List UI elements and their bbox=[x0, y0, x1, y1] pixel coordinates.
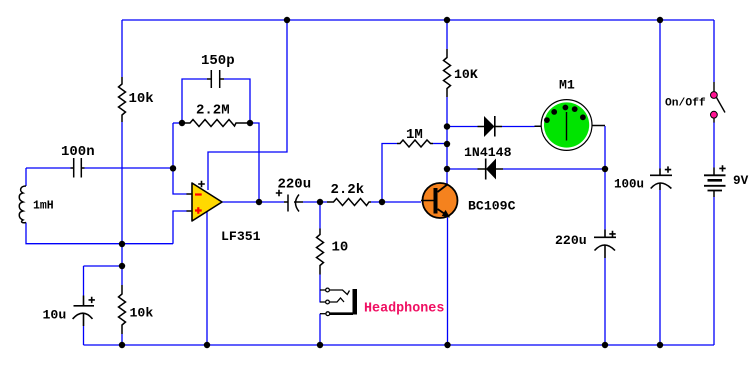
wire 150p loop left bbox=[182, 79, 207, 123]
wire meter right drop bbox=[604, 126, 606, 230]
wire 10u branch lower bbox=[83, 326, 85, 345]
wire diode D1 to meter bbox=[502, 126, 535, 128]
svg-text:220u: 220u bbox=[278, 177, 312, 193]
wire collector rail (10K to transistor) bbox=[446, 97, 448, 184]
wire 2.2k to base node bbox=[371, 201, 382, 203]
junction top rail / 100u branch bbox=[657, 17, 663, 23]
svg-text:1M: 1M bbox=[406, 127, 423, 143]
diode D2 1N4148 (return) bbox=[478, 159, 504, 180]
junction ground rail x122 bbox=[119, 342, 125, 348]
wire right vertical battery to ground rail bbox=[713, 197, 715, 345]
wire feedback from output bbox=[250, 123, 259, 202]
resistor R1 10k (top left) bbox=[119, 77, 126, 122]
junction ground rail x320 bbox=[317, 342, 323, 348]
capacitor C2 150p plates bbox=[207, 70, 224, 88]
wire 100u branch upper bbox=[659, 20, 661, 169]
battery B1 9V bbox=[704, 168, 726, 198]
transistor Q1 BC109C bbox=[421, 183, 458, 218]
headphone jack J1 bbox=[320, 288, 357, 316]
svg-text:1mH: 1mH bbox=[33, 200, 54, 213]
svg-text:2.2M: 2.2M bbox=[196, 103, 230, 119]
junction tank bottom node bbox=[119, 241, 125, 247]
wire 10u branch upper bbox=[83, 266, 85, 296]
wire 10u branch horizontal bbox=[84, 265, 123, 267]
svg-text:150p: 150p bbox=[201, 53, 235, 69]
svg-text:220u: 220u bbox=[555, 233, 587, 248]
plus mark C5 220u bbox=[609, 231, 615, 237]
junction 2.2M left node bbox=[179, 120, 185, 126]
switch S1 On/Off bbox=[711, 82, 726, 123]
wire headphone jack sleeve to ground rail bbox=[319, 314, 321, 345]
meter M1 bbox=[535, 100, 606, 151]
wire bottom ground rail bbox=[84, 344, 715, 346]
junction inverting input node bbox=[170, 165, 176, 171]
resistor R6 1M bbox=[397, 140, 433, 147]
wire left vertical (10k bottom to ground rail) bbox=[121, 334, 123, 345]
wire base node to transistor bbox=[382, 201, 421, 203]
resistor R2 10k (bottom left) bbox=[119, 285, 126, 334]
wire top supply rail bbox=[122, 19, 714, 21]
resistor R7 10K collector bbox=[444, 49, 451, 97]
junction 2.2k left node bbox=[317, 199, 323, 205]
wire op-amp V+ to top rail bbox=[208, 20, 287, 190]
wire 100u branch lower bbox=[659, 190, 661, 345]
wire op-amp V- to ground rail bbox=[206, 212, 208, 345]
resistor R5 10 ohm bbox=[317, 229, 324, 275]
diode D1 1N4148 (to meter) bbox=[478, 116, 503, 137]
wire jog to 2.2M left node bbox=[173, 122, 182, 124]
junction top rail / collector branch bbox=[444, 17, 450, 23]
svg-text:10K: 10K bbox=[454, 67, 478, 82]
wire diode D2 row right bbox=[503, 168, 605, 170]
svg-text:10k: 10k bbox=[129, 91, 154, 107]
wire diode D2 row left bbox=[447, 168, 478, 170]
wire collector rail top (rail to 10K) bbox=[446, 20, 448, 49]
wire diode D1 row left bbox=[447, 126, 478, 128]
svg-text:Headphones: Headphones bbox=[364, 302, 444, 317]
junction collector / 1M node bbox=[444, 141, 450, 147]
wire tank left down to coil bbox=[25, 168, 27, 186]
wire 220u right to ground rail bbox=[604, 258, 606, 345]
junction 2.2M right node bbox=[247, 120, 253, 126]
svg-text:M1: M1 bbox=[559, 78, 575, 93]
svg-text:10k: 10k bbox=[130, 306, 154, 321]
wire 1M right to collector rail bbox=[433, 143, 447, 145]
svg-text:100u: 100u bbox=[614, 178, 644, 192]
inductor L1 1mH coil bbox=[19, 186, 26, 223]
junction ground rail x605 bbox=[602, 342, 608, 348]
junction op-amp output node bbox=[256, 199, 262, 205]
junction base node bbox=[379, 199, 385, 205]
wire output node down to 10 ohm bbox=[319, 202, 321, 229]
wire 100n to inverting node bbox=[85, 167, 174, 169]
junction meter drop / D2 node bbox=[602, 166, 608, 172]
wire right vertical switch to battery bbox=[713, 122, 715, 168]
junction collector / D2 node bbox=[444, 166, 450, 172]
junction ground rail x447 bbox=[444, 342, 450, 348]
svg-text:LF351: LF351 bbox=[221, 229, 261, 244]
op-amp U1 LF351 bbox=[187, 181, 223, 221]
wire coil bottom to junction bbox=[26, 223, 173, 244]
resistor R3 2.2M bbox=[182, 120, 250, 127]
wire op-amp output bbox=[222, 201, 284, 203]
wire left vertical (top rail to 10k) bbox=[121, 20, 123, 77]
svg-text:100n: 100n bbox=[61, 144, 95, 160]
wire non-inverting input riser bbox=[173, 211, 187, 244]
resistor R4 2.2k bbox=[327, 199, 371, 206]
wire tank top to 100n bbox=[26, 167, 71, 169]
plus mark battery bbox=[719, 165, 725, 171]
junction top rail / V+ riser bbox=[284, 17, 290, 23]
wire 1M left riser bbox=[382, 144, 397, 203]
wire right vertical above switch bbox=[713, 20, 715, 82]
wire 150p loop right bbox=[224, 79, 250, 123]
wire left vertical (10k to tank junctions) bbox=[121, 122, 123, 285]
capacitor C4 100u bbox=[650, 169, 672, 191]
svg-text:2.2k: 2.2k bbox=[331, 182, 365, 198]
svg-text:10: 10 bbox=[332, 240, 349, 256]
junction collector / D1 node bbox=[444, 123, 450, 129]
svg-text:On/Off: On/Off bbox=[665, 98, 706, 110]
wire 220u to 2.2k node bbox=[303, 201, 327, 203]
svg-text:1N4148: 1N4148 bbox=[464, 145, 512, 160]
plus mark C4 100u bbox=[665, 166, 671, 172]
junction 10u branch node bbox=[119, 263, 125, 269]
svg-text:9V: 9V bbox=[733, 173, 749, 188]
plus mark C6 10u bbox=[89, 297, 95, 303]
wire 10 ohm to headphone jack bbox=[319, 275, 321, 303]
capacitor C5 220u (meter branch) bbox=[594, 230, 616, 259]
svg-text:BC109C: BC109C bbox=[468, 199, 516, 214]
junction ground rail x207 bbox=[204, 342, 210, 348]
svg-text:10u: 10u bbox=[43, 308, 67, 323]
wire inverting input vertical bbox=[173, 123, 187, 194]
capacitor C6 10u bbox=[73, 296, 94, 327]
wire emitter to ground rail bbox=[447, 218, 449, 346]
junction ground rail x660 bbox=[657, 342, 663, 348]
capacitor C3 220u coupling plates bbox=[284, 195, 303, 212]
plus mark C3 220u bbox=[276, 190, 282, 196]
capacitor C1 100n plates bbox=[71, 158, 85, 178]
